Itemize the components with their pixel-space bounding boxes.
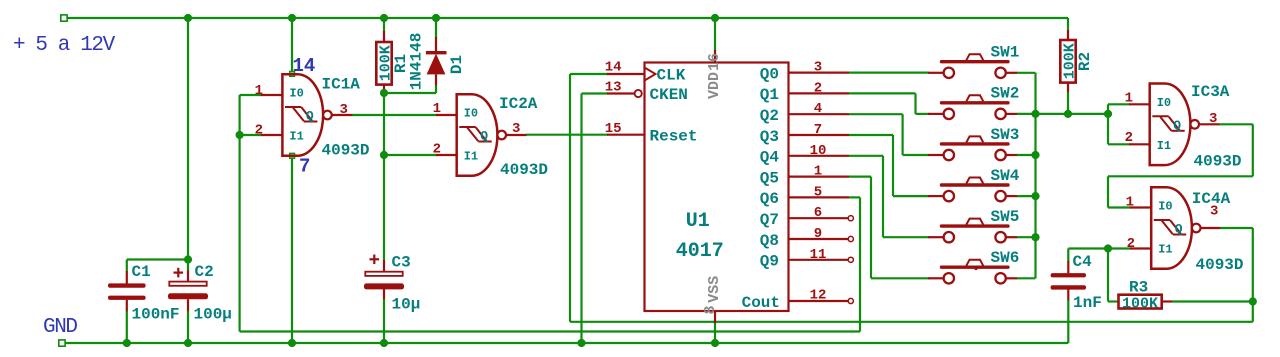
push-button switch SW3 [928,126,1019,160]
junction GND x=126.8 [123,339,131,347]
svg-text:2: 2 [1127,236,1135,252]
junction IC4A pin2 node [1104,244,1112,252]
svg-text:4017: 4017 [676,240,724,263]
wire SW4 right contact to common [1017,195,1036,197]
svg-text:I1: I1 [464,150,478,164]
junction R1/D1 node [380,89,388,97]
junction CKEN-GND [577,339,585,347]
wire rail to U1 VDD (pin 16) [714,18,716,51]
wire SW3 right contact to common [1017,154,1036,156]
wire C2 to GND [187,299,189,312]
svg-text:3: 3 [1210,204,1218,220]
push-button switch SW5 [928,208,1019,242]
junction SW5 common [1031,233,1039,241]
wire rail to IC1A pin 14 [291,18,293,74]
wire C1 to GND [126,300,128,312]
wire IC1A input column [239,95,241,332]
svg-text:1N4148: 1N4148 [408,33,426,91]
svg-text:VDD: VDD [706,72,723,99]
svg-text:8: 8 [702,305,719,314]
wire U1 CKEN (pin 13) to GND [582,92,609,94]
wire C3 to GND [383,288,385,301]
svg-text:Q9: Q9 [760,253,779,271]
svg-text:SW3: SW3 [991,126,1020,144]
junction SW2 common [1031,110,1039,118]
open pin end (Q7) [848,216,853,221]
wire Q4 to SW5 [849,155,883,157]
wire Q3 to SW4 [849,134,893,136]
push-button switch SW1 [928,44,1019,78]
wire IC4A output down to feedback [1201,227,1222,229]
resistor R2 100K (vertical) [1060,40,1094,83]
U1 pin 10 (Q4) stub [789,155,850,157]
svg-text:10: 10 [810,143,827,159]
pin square IC1A pin7 [290,153,295,158]
svg-text:I0: I0 [289,87,303,101]
U1 pin 12 (Cout) stub [789,300,850,302]
op-amp-style NAND gate IC1A (4093D) [255,74,370,159]
svg-text:C1: C1 [132,263,151,281]
wire SW1 right contact to common [1017,72,1036,74]
svg-text:Q: Q [306,109,314,124]
wire IC3A output to IC4A pin 1 [1199,123,1220,125]
wire U1 VSS (pin 8) to GND [714,311,716,324]
svg-text:C2: C2 [195,263,214,281]
svg-text:2: 2 [433,141,441,157]
open endpoint square (GND) [59,340,65,346]
U1 pin 9 (Q8) stub [789,238,850,240]
svg-text:Q1: Q1 [760,86,779,104]
wire R3 right to feedback node [1162,300,1173,302]
op-amp-style NAND gate IC2A (4093D) [433,94,548,179]
svg-text:Q5: Q5 [760,169,779,187]
junction rail x=188 [184,14,192,22]
svg-text:Reset: Reset [650,128,698,146]
wire CLK net: feedback column to U1 CLK pin 14 [570,73,608,75]
svg-text:Q2: Q2 [760,107,779,125]
diode D1 1N4148 [408,33,467,91]
svg-text:CLK: CLK [657,67,686,85]
open pin end (Cout) [848,298,853,303]
wire switch common to R2 and IC3A [1036,113,1109,115]
svg-text:+ 5 a 12V: + 5 a 12V [13,34,116,57]
svg-text:3: 3 [814,60,822,76]
resistor R3 100K (horizontal) [1119,279,1162,313]
svg-text:C3: C3 [392,254,411,272]
U1 pin 5 (Q6) stub [789,196,850,198]
wire IC3A pin 2 [1108,143,1130,145]
svg-text:Q: Q [1173,118,1181,133]
svg-text:I1: I1 [289,130,303,144]
svg-text:2: 2 [1125,130,1133,146]
junction GND x=292 [288,339,296,347]
push-button switch SW4 [928,167,1020,201]
svg-text:1: 1 [814,164,822,180]
svg-text:R2: R2 [1076,52,1094,71]
IC U1 4017 decade counter [605,53,789,315]
wire Q1 to SW2 [849,92,916,94]
wire rail to D1 cathode [435,18,437,38]
junction node C2 top [184,255,192,263]
svg-text:SW6: SW6 [991,249,1020,267]
push-button switch SW6 [928,249,1019,283]
wire rail to R1 [383,18,385,32]
wire R1 bottom to RC node [383,85,385,94]
svg-text:Q3: Q3 [760,128,779,146]
svg-text:7: 7 [814,122,822,138]
wire Q5 to SW6 [849,176,871,178]
svg-text:I0: I0 [464,107,478,121]
svg-text:Q8: Q8 [760,232,779,250]
svg-text:Q0: Q0 [760,65,779,83]
U1 pin 3 (Q0) stub [789,71,850,73]
capacitor C3 (polarized) [364,254,420,314]
wire R2 bottom to switch common [1067,83,1069,93]
wire IC1A pin 1 [240,94,262,96]
wire C1-C2 top link [127,258,188,260]
svg-text:VSS: VSS [706,276,723,303]
open pin end (Q8) [848,236,853,241]
wire IC1A pin 2 [240,134,262,136]
svg-text:15: 15 [605,121,622,137]
wire switch common vertical [1034,73,1036,278]
junction rail x=436 [432,14,440,22]
svg-text:I1: I1 [1158,243,1172,257]
svg-text:1: 1 [1126,195,1134,211]
svg-text:10µ: 10µ [392,296,421,314]
svg-text:SW1: SW1 [991,44,1020,62]
wire Q2 to SW3 [849,113,903,115]
svg-text:U1: U1 [686,210,710,233]
svg-text:9: 9 [814,226,822,242]
open pin end (Q9) [848,257,853,262]
svg-text:7: 7 [299,156,310,178]
svg-text:Q4: Q4 [760,149,780,167]
wire CLK feedback bottom run [570,321,1253,323]
junction R2 bottom [1064,110,1072,118]
svg-text:IC1A: IC1A [322,76,361,94]
svg-text:4093D: 4093D [322,142,370,160]
svg-text:1nF: 1nF [1073,294,1102,312]
op-amp-style NAND gate IC4A (4093D) [1126,187,1244,274]
svg-text:I0: I0 [1158,200,1172,214]
wire RC node to IC2A pin 2 [384,154,437,156]
svg-text:4093D: 4093D [1194,153,1242,171]
power rail wire (+5 to 12V) [64,17,1068,19]
svg-text:I0: I0 [1157,96,1171,110]
svg-text:4093D: 4093D [500,161,548,179]
svg-text:2: 2 [814,80,822,96]
junction IC1A pin2 [236,131,244,139]
junction SW3 common [1031,151,1039,159]
junction GND x=384 [380,339,388,347]
svg-text:Q: Q [480,129,488,144]
wire D1 anode to RC node [435,74,437,86]
svg-text:CKEN: CKEN [650,86,688,104]
svg-text:R3: R3 [1129,279,1148,297]
svg-text:IC3A: IC3A [1191,83,1230,101]
capacitor C1 (non-polarized) [108,263,180,324]
wire C4 bottom to GND [1067,289,1069,301]
wire Q0 to SW1 [849,71,929,73]
svg-text:Cout: Cout [742,294,780,312]
wire SW6 right contact to common [1017,277,1036,279]
U1 pin 1 (Q5) stub [789,176,850,178]
wire RC2 node: C4 / IC4A pin 2 / R3 [1068,247,1131,249]
svg-text:11: 11 [810,247,827,263]
svg-text:SW5: SW5 [991,208,1020,226]
junction R3/IC4A out [1249,297,1257,305]
svg-text:12: 12 [810,288,827,304]
svg-text:Q: Q [1175,222,1183,237]
wire Q6 feedback to IC1A inputs [849,196,860,198]
svg-text:100nF: 100nF [132,306,180,324]
svg-text:4: 4 [814,101,822,117]
svg-text:14: 14 [605,60,622,76]
svg-text:GND: GND [43,316,77,339]
svg-text:5: 5 [814,184,822,200]
svg-text:13: 13 [605,80,622,96]
svg-text:IC2A: IC2A [499,95,538,113]
svg-text:SW2: SW2 [991,85,1020,103]
wire SW2 right contact to common [1017,113,1036,115]
svg-text:Q7: Q7 [760,211,779,229]
inversion bubble CKEN [635,90,642,97]
svg-text:4093D: 4093D [1196,256,1244,274]
U1 pin 6 (Q7) stub [789,217,850,219]
svg-text:2: 2 [255,122,263,138]
junction GND x=188 [184,339,192,347]
svg-text:SW4: SW4 [991,167,1020,185]
svg-text:16: 16 [706,53,723,71]
U1 pin 4 (Q2) stub [789,113,850,115]
wire IC3A pin 1 [1108,103,1130,105]
wire SW5 right contact to common [1017,236,1036,238]
junction rail x=384 [380,14,388,22]
wire C4 top lead [1067,249,1069,263]
open endpoint square (supply) [61,15,67,21]
stray dot mark [974,267,977,270]
wire RC node down to C3 [383,155,385,261]
svg-text:1: 1 [433,101,441,117]
push-button switch SW2 [928,85,1019,119]
svg-text:1: 1 [255,83,263,99]
U1 pin 11 (Q9) stub [789,259,850,261]
resistor R1 100K (vertical) [376,42,410,85]
junction rail x=292 [288,14,296,22]
wire rail corner down to R2 [1067,18,1069,31]
U1 pin 2 (Q1) stub [789,92,850,94]
junction IC3A inputs [1104,110,1112,118]
junction SW4 common [1031,192,1039,200]
ground rail wire GND [62,342,1068,344]
wire IC1A output to IC2A pin 1 [332,114,353,116]
junction rail x=715 [711,14,719,22]
svg-text:6: 6 [814,205,822,221]
capacitor C4 (non-polarized) [1051,253,1102,312]
U1 pin 7 (Q3) stub [789,134,850,136]
svg-text:D1: D1 [448,55,466,74]
junction RC node / IC2A pin2 [380,151,388,159]
pin square IC1A pin14 [290,71,295,76]
svg-text:100µ: 100µ [194,306,232,324]
wire rail to C1/C2 node [187,18,189,260]
svg-text:1: 1 [1125,91,1133,107]
wire IC1A pin 7 to GND [291,156,293,343]
svg-text:100K: 100K [1122,295,1158,312]
svg-text:Q6: Q6 [760,190,779,208]
capacitor C2 (polarized) [168,263,232,324]
svg-text:I1: I1 [1157,139,1171,153]
wire IC2A output to U1 Reset (pin 15) [506,134,527,136]
junction VSS-GND [711,339,719,347]
wire IC3A input pair column [1107,104,1109,144]
op-amp-style NAND gate IC3A (4093D) [1125,83,1242,171]
svg-text:C4: C4 [1073,253,1093,271]
